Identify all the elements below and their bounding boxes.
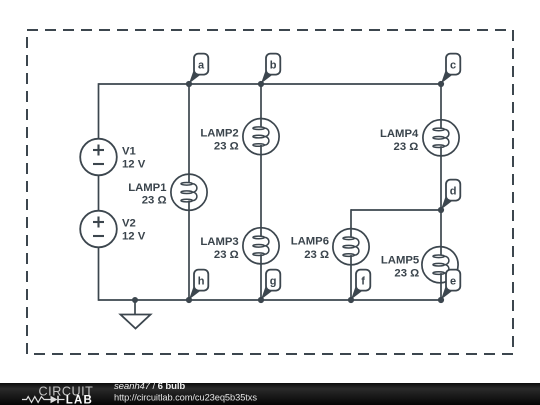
node c (438, 54, 460, 88)
svg-text:23 Ω: 23 Ω (304, 249, 329, 261)
node b (258, 54, 280, 88)
wire top rail a-b-c (99, 83, 442, 85)
wire left rail top (to V1) (98, 83, 100, 139)
svg-text:12 V: 12 V (122, 159, 146, 171)
voltage source V2 (80, 211, 146, 248)
svg-text:c: c (450, 59, 456, 71)
node h (186, 270, 208, 304)
wire LAMP6 column top (350, 209, 352, 238)
svg-text:23 Ω: 23 Ω (214, 141, 239, 153)
svg-text:h: h (198, 275, 205, 287)
svg-text:LAMP4: LAMP4 (380, 128, 419, 140)
node e (438, 270, 460, 304)
lamp LAMP4 (380, 120, 459, 156)
wire LAMP6 to f (350, 255, 352, 300)
svg-text:a: a (198, 59, 205, 71)
lamp LAMP1 (128, 174, 207, 210)
svg-text:LAMP2: LAMP2 (200, 127, 238, 139)
footer bar (0, 381, 540, 405)
svg-text:V2: V2 (122, 218, 136, 230)
lamp LAMP6 (291, 229, 369, 265)
svg-text:g: g (270, 275, 277, 287)
schematic dashed frame (decorative) (27, 30, 513, 354)
wire LAMP2 to LAMP3 (260, 145, 262, 237)
node a (186, 54, 208, 88)
wire LAMP4 to d (440, 146, 442, 210)
svg-text:b: b (270, 59, 277, 71)
wire column a to LAMP1 (188, 84, 190, 184)
svg-text:f: f (361, 275, 365, 287)
wire d to LAMP5 (440, 210, 442, 256)
wire d horizontal to LAMP6 column (351, 209, 441, 211)
svg-text:23 Ω: 23 Ω (214, 249, 239, 261)
node f (348, 270, 370, 304)
svg-text:LAMP6: LAMP6 (291, 236, 329, 248)
lamp LAMP5 (381, 247, 458, 283)
svg-text:12 V: 12 V (122, 231, 146, 243)
wire bottom rail h-g-f-e (99, 299, 442, 301)
wire between V1 and V2 (98, 175, 100, 211)
svg-text:23 Ω: 23 Ω (142, 195, 167, 207)
wire LAMP1 to h (188, 201, 190, 300)
svg-text:LAMP1: LAMP1 (128, 182, 166, 194)
wire column b to LAMP2 (260, 84, 262, 128)
wire LAMP5 to e (440, 273, 442, 300)
wire left rail bottom (V2 to bottom rail) (98, 247, 100, 301)
lamp LAMP2 (200, 119, 279, 155)
wire LAMP3 to g (260, 254, 262, 300)
voltage source V1 (80, 139, 146, 176)
svg-text:V1: V1 (122, 146, 136, 158)
svg-text:e: e (450, 275, 456, 287)
svg-text:LAMP5: LAMP5 (381, 254, 419, 266)
svg-text:LAB: LAB (66, 395, 93, 405)
node d (438, 180, 460, 213)
wire column c to LAMP4 (440, 84, 442, 129)
svg-text:d: d (450, 185, 457, 197)
svg-text:LAMP3: LAMP3 (200, 236, 238, 248)
svg-text:23 Ω: 23 Ω (394, 141, 419, 153)
node g (258, 270, 280, 304)
svg-text:http://circuitlab.com/cu23eq5b: http://circuitlab.com/cu23eq5b35txs (114, 392, 257, 402)
ground (121, 297, 151, 329)
svg-text:23 Ω: 23 Ω (394, 268, 419, 280)
svg-text:seanh47 / 6 bulb: seanh47 / 6 bulb (114, 381, 185, 392)
lamp LAMP3 (200, 228, 279, 264)
